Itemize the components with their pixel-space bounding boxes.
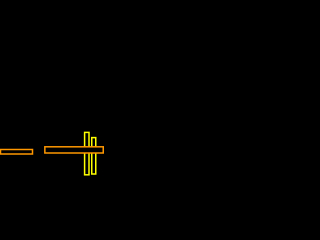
horizontal orange bar long [45,147,103,153]
vertical yellow bar A [85,132,89,174]
horizontal orange bar short [1,150,33,155]
vertical yellow bar B [92,138,96,174]
